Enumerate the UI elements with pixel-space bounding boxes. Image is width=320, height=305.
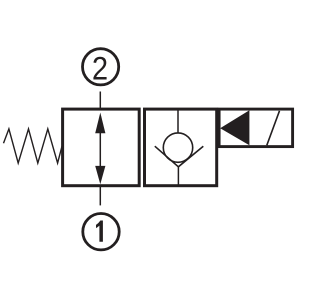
- port 1 label: [96, 221, 103, 242]
- solenoid triangle: [220, 110, 249, 145]
- valve body left box: [63, 109, 140, 186]
- port 1 circle: [83, 214, 119, 250]
- wire to port 2: [99, 92, 101, 111]
- check valve seat V: [155, 146, 204, 167]
- arrowhead up: [95, 113, 105, 134]
- port 2 label: [93, 57, 106, 80]
- wire to port 1: [99, 185, 101, 206]
- check valve top stub: [177, 110, 179, 133]
- spring: [4, 129, 63, 163]
- double-headed flow arrow shaft: [99, 116, 101, 180]
- check valve bottom stub: [177, 167, 179, 186]
- solenoid slash: [267, 111, 280, 146]
- check valve ball circle: [163, 133, 192, 162]
- valve body right box: [145, 109, 217, 186]
- arrowhead down: [95, 166, 105, 184]
- port 2 circle: [83, 49, 119, 85]
- solenoid box: [219, 109, 293, 147]
